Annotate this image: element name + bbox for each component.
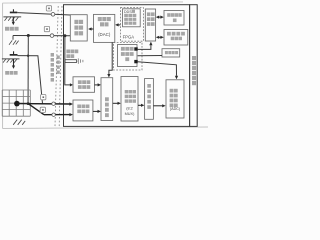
junction dot on W2 (V feed branch) — [63, 34, 66, 37]
wire B: to follower box — [44, 113, 73, 116]
system frame — [64, 5, 190, 127]
wire pad2 to ADC top (down arrow) — [138, 62, 179, 80]
FPGA dashed container — [120, 8, 143, 42]
electrode E2 plate — [10, 51, 18, 55]
V feed wire from W2 junction to current source box — [65, 36, 73, 87]
pad 1 — [134, 47, 137, 50]
junction dot on W2 (V1 branch) — [27, 34, 30, 37]
box2 DAC — [94, 14, 115, 42]
double arrow CPU - touchscreen — [156, 16, 164, 19]
vertical text between dashes — [57, 56, 60, 74]
circle on W1 at boundary — [51, 13, 55, 17]
current source box — [73, 77, 95, 93]
arrow filter to ADC — [153, 104, 165, 107]
voltage follower box — [73, 100, 93, 121]
dashed boundary line 2 — [59, 6, 62, 126]
W2 left tick and hatch — [9, 36, 19, 45]
arrow DAC to box1 — [88, 27, 93, 30]
connector icon S4 — [40, 107, 45, 112]
arrow PGA to MUX — [113, 102, 121, 105]
box1 power amp — [70, 15, 87, 41]
arrow current source to PGA — [95, 83, 102, 86]
label E1 — [5, 27, 19, 31]
ground hatch under grid — [13, 120, 25, 125]
resistor right lead and cap ticks — [77, 58, 83, 63]
power module box — [162, 49, 180, 57]
touchscreen box — [164, 11, 184, 26]
filter narrow box — [145, 79, 154, 120]
down arrow E2 — [12, 59, 15, 69]
storage box — [164, 30, 188, 46]
junction dot V1 x W4 — [27, 55, 29, 57]
double arrow CPU - storage — [156, 36, 164, 39]
wire W2 to box1 lower left — [13, 35, 70, 37]
electrode E1 plate — [10, 9, 17, 13]
page border top — [3, 2, 183, 3]
side label box of frame — [190, 5, 198, 127]
PGA narrow box — [101, 78, 113, 121]
arrow follower to PGA — [93, 110, 101, 113]
wire DAC down to PGA box (down arrow) — [107, 42, 112, 77]
wire mid to power module — [138, 55, 162, 57]
CPU box — [145, 9, 155, 41]
svg-text:(8:2: (8:2 — [126, 106, 133, 110]
grid node dot — [14, 101, 20, 107]
circle on W2 at boundary — [50, 34, 54, 38]
sampling resistor label — [66, 50, 78, 59]
connector icon S1 — [46, 6, 51, 11]
connector icon S2 — [44, 26, 49, 31]
svg-text:(DAC): (DAC) — [98, 32, 111, 37]
circle on wire B — [52, 113, 55, 116]
page border left — [2, 3, 4, 129]
vertical V1 from W2 junction down to wire A junction — [27, 36, 29, 104]
dashed boundary line 1 — [55, 6, 58, 126]
svg-text:(ADC): (ADC) — [170, 107, 180, 111]
skin line 1 with hatches — [3, 17, 21, 21]
ADC box — [166, 80, 184, 118]
lock-in inner box — [118, 45, 138, 67]
label E2 — [5, 71, 17, 75]
junction dot at V1 meets wire A — [27, 102, 30, 105]
page border bottom — [3, 127, 208, 129]
sampling resistor body — [65, 60, 77, 63]
circle on wire A — [52, 102, 55, 105]
arrow DDS to DAC — [115, 23, 120, 26]
MUX box — [121, 77, 138, 122]
diagonal from junction to wire B — [28, 104, 44, 115]
DDS inner box — [123, 9, 141, 27]
skin line 2 with hatches — [2, 59, 20, 63]
wire A: dot to follower box — [17, 102, 73, 105]
svg-text:MUX): MUX) — [125, 112, 135, 116]
pad 2 — [134, 60, 137, 63]
vertical label text in side box — [192, 56, 196, 85]
connector icon S3 on E2 drop — [41, 95, 46, 100]
svg-text:FPGA: FPGA — [123, 34, 135, 39]
wire pad1 to CPU bottom (up arrow) — [138, 42, 153, 50]
wire W1 electrode1 to box1 — [17, 13, 70, 15]
lock-in dashed container — [114, 43, 143, 71]
svg-text:DDS: DDS — [124, 10, 132, 14]
electrode array grid — [2, 90, 30, 116]
arrow MUX to filter — [138, 104, 144, 107]
vertical text left of boundary — [51, 53, 54, 82]
wire W4 from E2 right then slanting down to S3 and wire A — [18, 56, 43, 104]
down arrow E1 — [12, 17, 15, 25]
